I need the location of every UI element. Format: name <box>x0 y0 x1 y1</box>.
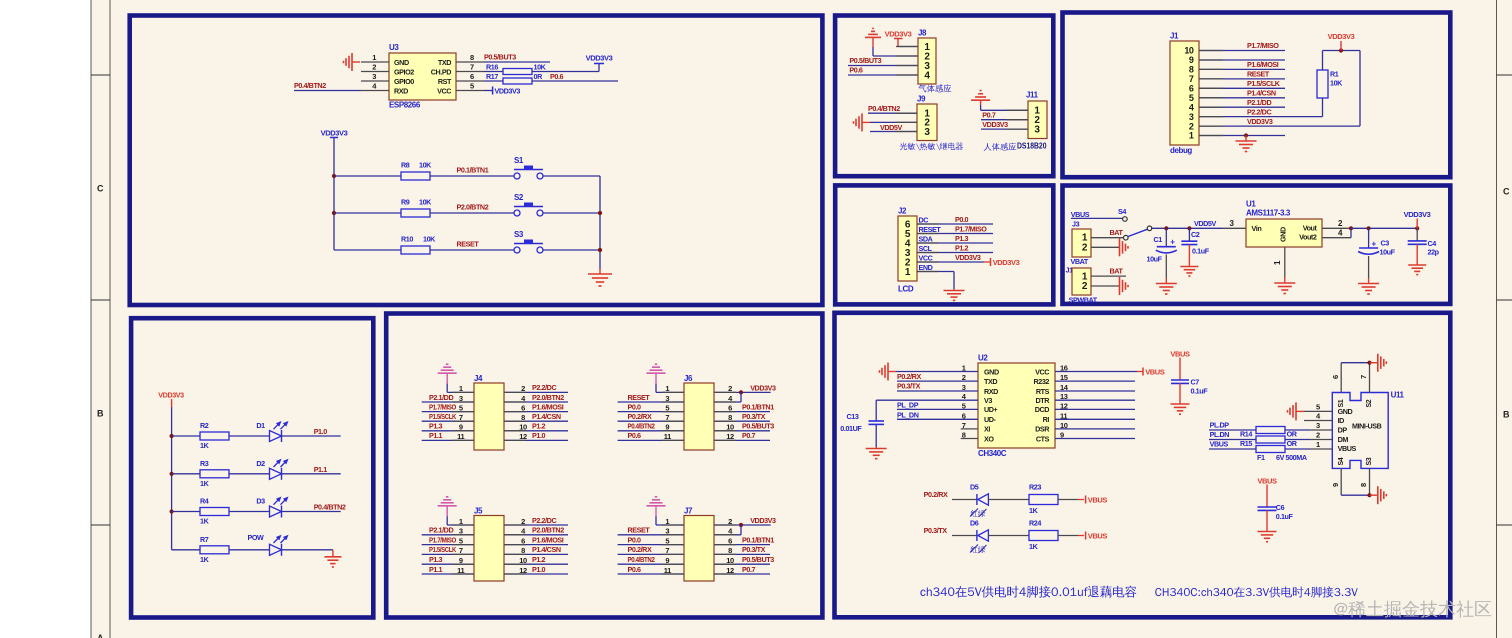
junction node row1 <box>332 174 336 178</box>
J6 right pin stub <box>714 391 736 393</box>
svg-text:R232: R232 <box>1033 377 1049 386</box>
svg-text:3: 3 <box>1230 219 1235 228</box>
svg-text:LCD: LCD <box>898 285 914 294</box>
J5 left pin stub <box>452 524 474 526</box>
wire J7 pin2 to VDD3V3 <box>714 524 771 526</box>
svg-text:P0.2/RX: P0.2/RX <box>897 372 921 381</box>
wire shell top <box>1341 362 1369 364</box>
svg-text:R23: R23 <box>1029 482 1041 491</box>
wire F1 to USB VBUS <box>1285 448 1310 450</box>
svg-text:P0.5/BUT3: P0.5/BUT3 <box>484 53 516 62</box>
svg-text:S1: S1 <box>514 156 524 165</box>
svg-text:PL_DP: PL_DP <box>897 401 919 410</box>
ground above J7 pin1 (earth) <box>655 505 657 507</box>
svg-text:C: C <box>97 184 104 194</box>
D6 color mark (struck text) <box>971 546 986 553</box>
capacitor C1 (polarized) <box>1165 228 1167 246</box>
junction shell top <box>1367 361 1371 365</box>
svg-text:7: 7 <box>1359 375 1368 379</box>
svg-text:0.1uF: 0.1uF <box>1276 512 1294 521</box>
svg-text:P2.2/DC: P2.2/DC <box>1247 107 1271 116</box>
svg-text:VCC: VCC <box>437 86 451 95</box>
connector J3 <box>1072 229 1091 257</box>
J1 pin stubs <box>1199 50 1223 52</box>
wire ground to J11 pin1 <box>980 105 982 110</box>
svg-text:BAT: BAT <box>1110 267 1124 276</box>
ground below C13 <box>875 447 877 449</box>
wire LED D1 out <box>282 435 341 437</box>
svg-text:P0.2/RX: P0.2/RX <box>924 490 948 499</box>
svg-text:P0.5/BUT3: P0.5/BUT3 <box>849 56 881 65</box>
svg-text:DTR: DTR <box>1035 396 1050 405</box>
wire J4 pin2 <box>504 391 568 393</box>
wire J4 pin7 <box>422 420 474 422</box>
resistor R2 <box>200 432 229 440</box>
svg-text:R2: R2 <box>200 421 209 430</box>
svg-text:P1.0: P1.0 <box>314 427 328 436</box>
J4 left pin stub <box>452 430 474 432</box>
svg-text:9: 9 <box>1331 483 1340 487</box>
J5 right pin stub <box>504 524 526 526</box>
svg-text:+: + <box>1372 239 1377 248</box>
svg-text:0R: 0R <box>534 72 544 81</box>
wire C13 to ground <box>875 424 877 447</box>
wire J7 pin8 <box>714 553 770 555</box>
svg-text:R3: R3 <box>200 459 209 468</box>
J6 left pin stub <box>662 401 684 403</box>
svg-text:P1.2: P1.2 <box>532 422 546 431</box>
wire ground to J6 pin1 <box>655 384 657 393</box>
wire D5 to R23 <box>989 499 1030 501</box>
svg-text:DP: DP <box>1338 426 1348 435</box>
wire R10 to switch S3 <box>430 249 514 251</box>
wire J5 pin5 <box>422 544 474 546</box>
wire U2 pin11 <box>1055 418 1135 420</box>
junction U1 output <box>1349 226 1353 230</box>
resistor R24 <box>1029 531 1058 541</box>
wire V3 down to C13 <box>875 400 877 420</box>
svg-text:PL.DN: PL.DN <box>1210 430 1230 439</box>
svg-text:S2: S2 <box>1366 399 1373 407</box>
svg-text:GND: GND <box>1279 227 1288 242</box>
wire LED trunk <box>171 407 173 550</box>
svg-text:F1: F1 <box>1257 453 1265 462</box>
svg-text:U1: U1 <box>1246 200 1256 209</box>
wire J7 pin5 <box>618 544 684 546</box>
wire P0.6 J8 pin4 <box>848 74 918 76</box>
svg-text:J2: J2 <box>898 207 907 216</box>
svg-text:P2.1/DD: P2.1/DD <box>429 393 453 402</box>
svg-text:VDD3V3: VDD3V3 <box>1404 210 1431 219</box>
wire J4 pin4 <box>504 401 568 403</box>
svg-text:P0.5/BUT3: P0.5/BUT3 <box>742 555 774 564</box>
wire J1 pin2 to VDD3V3 rail <box>1199 125 1360 127</box>
svg-text:C3: C3 <box>1381 238 1390 247</box>
wire J5 pin7 <box>422 553 474 555</box>
wire LED D3 out <box>282 511 341 513</box>
ground above J4 pin1 (earth) <box>446 372 448 374</box>
svg-text:P0.6: P0.6 <box>550 72 564 81</box>
svg-text:SDA: SDA <box>919 234 933 243</box>
connector U11 MINI-USB body <box>1332 393 1388 469</box>
capacitor C6 <box>1258 506 1277 508</box>
wire S3 to right trunk <box>543 249 600 251</box>
wire J1 pin4 <box>1199 106 1285 108</box>
wire right trunk <box>599 176 601 269</box>
svg-text:VDD3V3: VDD3V3 <box>955 253 981 262</box>
wire 5V rail S4 to U1 <box>1151 227 1223 229</box>
wire P0.7 J11 pin2 <box>981 119 1028 121</box>
power port VDD3V3 at U3 pin5 <box>484 90 493 92</box>
ground below C4 <box>1416 264 1418 265</box>
svg-text:DSR: DSR <box>1035 425 1050 434</box>
J6 left pin stub <box>662 391 684 393</box>
svg-text:D2: D2 <box>256 459 265 468</box>
J6 left pin stub <box>662 420 684 422</box>
svg-text:1: 1 <box>1189 131 1194 141</box>
svg-text:R9: R9 <box>401 198 410 207</box>
svg-text:MINI-USB: MINI-USB <box>1352 422 1382 431</box>
wire J6 pin12 <box>714 439 770 441</box>
svg-text:VBUS: VBUS <box>1170 350 1190 359</box>
wire pin4 up to pin2 rail <box>1350 228 1352 237</box>
wire J4 pin11 <box>422 439 474 441</box>
wire ground to J7 pin1 <box>655 516 657 525</box>
svg-text:VDD3V3: VDD3V3 <box>321 129 348 138</box>
svg-text:P1.0: P1.0 <box>532 565 546 574</box>
svg-text:P0.4/BTN2: P0.4/BTN2 <box>628 422 655 431</box>
resistor R3 <box>200 470 229 478</box>
svg-text:ESP8266: ESP8266 <box>389 101 421 110</box>
wire J2 SDA <box>917 242 993 244</box>
svg-text:END: END <box>919 263 933 272</box>
svg-text:VDD3V3: VDD3V3 <box>586 54 613 63</box>
wire U2 pin12 <box>1055 408 1135 410</box>
wire ground to J8 pin2 <box>872 47 874 56</box>
svg-text:TXD: TXD <box>438 58 451 67</box>
svg-text:ID: ID <box>1338 416 1345 425</box>
svg-text:P1.0: P1.0 <box>532 431 546 440</box>
svg-text:P0.4/BTN2: P0.4/BTN2 <box>628 555 655 564</box>
J7 right pin stub <box>714 544 736 546</box>
ground at J9 pin2 (signal ground) <box>862 121 870 123</box>
wire J5 pin11 <box>422 573 474 575</box>
wire shell bottom <box>1341 494 1369 496</box>
svg-text:P2.0/BTN2: P2.0/BTN2 <box>532 526 564 535</box>
schematic block frame: expansion headers <box>386 314 822 618</box>
svg-text:B: B <box>97 409 104 419</box>
svg-text:VDD3V3: VDD3V3 <box>885 29 912 38</box>
J7 right pin stub <box>714 553 736 555</box>
schematic block frame: ESP8266 module and buttons <box>130 16 823 306</box>
J5 right pin stub <box>504 534 526 536</box>
U1 pin3 stub <box>1223 227 1246 229</box>
svg-text:P2.2/DC: P2.2/DC <box>532 383 556 392</box>
J9 pin stubs <box>895 112 917 114</box>
junction LED row R3 <box>170 472 174 476</box>
wire J4 pin12 <box>504 439 568 441</box>
svg-text:P2.2/DC: P2.2/DC <box>532 516 556 525</box>
wire J5 pin4 <box>504 534 568 536</box>
svg-text:A: A <box>97 633 104 638</box>
svg-text:P0.6: P0.6 <box>628 431 642 440</box>
svg-text:1: 1 <box>372 53 376 62</box>
J7 right pin stub <box>714 534 736 536</box>
svg-text:Vout2: Vout2 <box>1299 233 1317 242</box>
svg-text:AMS1117-3.3: AMS1117-3.3 <box>1246 208 1291 217</box>
wire R14 to USB DP <box>1285 429 1310 431</box>
J4 left pin stub <box>452 439 474 441</box>
wire J5 pin10 <box>504 563 568 565</box>
schematic block frame: sensor headers <box>835 16 1053 177</box>
J5 right pin stub <box>504 544 526 546</box>
svg-text:R17: R17 <box>486 72 498 81</box>
J5 right pin stub <box>504 573 526 575</box>
J7 left pin stub <box>662 553 684 555</box>
resistor R14 <box>1256 427 1285 434</box>
wire J7 pin6 <box>714 544 770 546</box>
wire J2 END to ground <box>917 271 954 273</box>
wire P0.2/RX to D5 <box>952 499 977 501</box>
svg-text:P0.1/BTN1: P0.1/BTN1 <box>457 165 489 174</box>
svg-text:DCD: DCD <box>1035 405 1050 414</box>
svg-text:DS18B20: DS18B20 <box>1017 142 1047 151</box>
wire J6 pin4 <box>714 401 741 403</box>
svg-text:P0.2/RX: P0.2/RX <box>628 412 652 421</box>
svg-text:4: 4 <box>1338 229 1343 238</box>
wire R3 to LED <box>229 473 270 475</box>
capacitor C3 (polarized) <box>1368 228 1370 248</box>
svg-text:GND: GND <box>1338 407 1353 416</box>
svg-text:GND: GND <box>984 367 999 376</box>
ground at U3 pin1 (signal ground) <box>352 61 360 63</box>
ground below C7 <box>1179 403 1181 405</box>
svg-text:C6: C6 <box>1276 503 1285 512</box>
svg-text:RESET: RESET <box>628 526 651 535</box>
J8 pin stubs <box>896 46 918 48</box>
ground at U2 pin1 <box>888 371 896 373</box>
wire J6 pin8 <box>714 420 770 422</box>
svg-text:R1: R1 <box>1330 70 1339 79</box>
svg-text:1K: 1K <box>1029 542 1039 551</box>
fuse F1 <box>1256 446 1285 453</box>
label human sensor 人体感应 <box>984 143 1017 151</box>
power port VBUS at U2 VCC <box>1142 368 1144 376</box>
wire ground to USB pin5 <box>1304 410 1332 412</box>
svg-text:7: 7 <box>470 63 474 72</box>
U2 pin7 stub <box>961 428 978 430</box>
ground below C1 <box>1165 278 1167 284</box>
wire U2 pin4 V3 <box>876 399 978 401</box>
svg-text:6V 500MA: 6V 500MA <box>1276 453 1307 462</box>
resistor R4 <box>200 508 229 516</box>
svg-text:VDD5V: VDD5V <box>880 123 902 132</box>
wire J5 pin2 <box>504 524 568 526</box>
wire pin7 to R16 <box>484 71 503 73</box>
connector J4 <box>474 383 504 450</box>
wire J7 pin9 <box>618 563 684 565</box>
wire C2 to ground <box>1188 245 1190 266</box>
capacitor C13 <box>869 420 885 422</box>
wire J7 pin4 <box>714 534 741 536</box>
J4 left pin stub <box>452 420 474 422</box>
U3 pin 1 stub <box>361 61 389 63</box>
ground at USB GND pin5 <box>1296 410 1304 412</box>
U3 pin 3 stub <box>361 80 389 82</box>
svg-text:S4: S4 <box>1118 207 1126 216</box>
J4 right pin stub <box>504 391 526 393</box>
svg-text:2: 2 <box>1316 431 1320 440</box>
wire VBUS to C7 <box>1179 358 1181 380</box>
wire J4 pin5 <box>422 411 474 413</box>
wire pin6 to R17 <box>484 80 503 82</box>
J5 left pin stub <box>452 534 474 536</box>
resistor R17 <box>503 78 532 84</box>
svg-text:1: 1 <box>905 267 911 278</box>
svg-text:3: 3 <box>372 72 376 81</box>
svg-text:3: 3 <box>1189 112 1194 122</box>
wire U2 pin2 <box>897 380 978 382</box>
J5 left pin stub <box>452 563 474 565</box>
junction C3 <box>1367 226 1371 230</box>
svg-text:XO: XO <box>984 434 994 443</box>
sheet border zone ticks <box>91 74 110 76</box>
svg-text:P1.1: P1.1 <box>314 465 328 474</box>
svg-text:VBUS: VBUS <box>1088 531 1108 540</box>
svg-text:D5: D5 <box>970 482 979 491</box>
svg-text:P1.5/SCLK: P1.5/SCLK <box>429 412 457 421</box>
wire J1 pin8 <box>1199 68 1285 70</box>
J4 right pin stub <box>504 420 526 422</box>
wire U2 pin5 <box>897 408 978 410</box>
J7 right pin stub <box>714 563 736 565</box>
wire VBUS to C6 <box>1266 485 1268 507</box>
U11 pin8 shell stub <box>1369 468 1371 495</box>
junction shell bottom <box>1367 493 1371 497</box>
wire VDD5V J9 pin3 <box>870 131 917 133</box>
wire J3 pin2 <box>1091 246 1120 248</box>
svg-text:TXD: TXD <box>984 377 997 386</box>
junction VDD3V3 J6 <box>739 390 743 394</box>
wire J4 pin10 <box>504 430 568 432</box>
svg-text:C1: C1 <box>1154 235 1163 244</box>
wire R7 to LED <box>229 549 270 551</box>
wire trunk to R3 <box>172 473 200 475</box>
svg-text:S3: S3 <box>514 230 524 239</box>
wire VDD3V3 top rail <box>1323 50 1361 52</box>
D5 color mark (struck text) <box>971 510 986 517</box>
wire S2 to right trunk <box>543 212 600 214</box>
wire PL.DP to R14 <box>1209 429 1256 431</box>
power port VBUS at R24 <box>1085 532 1087 540</box>
wire ground to J9 pin2 <box>870 121 917 123</box>
svg-text:POW: POW <box>248 533 265 542</box>
connector J5 <box>474 516 504 582</box>
U3 pin 4 stub <box>361 90 389 92</box>
svg-text:J9: J9 <box>917 95 926 104</box>
J4 right pin stub <box>504 411 526 413</box>
svg-text:J11: J11 <box>1026 91 1039 100</box>
ground at J1 pin1 <box>1245 136 1247 142</box>
svg-text:D3: D3 <box>256 497 265 506</box>
svg-text:P1.5/SCLK: P1.5/SCLK <box>429 545 457 554</box>
resistor R9 <box>401 209 430 217</box>
svg-text:UD-: UD- <box>984 415 997 424</box>
svg-text:1: 1 <box>1316 440 1320 449</box>
J6 right pin stub <box>714 430 736 432</box>
wire 3.3V rail <box>1351 227 1417 229</box>
svg-text:P1.4/CSN: P1.4/CSN <box>532 545 561 554</box>
wire trunk to R8 <box>334 175 401 177</box>
wire C1 to ground <box>1165 255 1167 279</box>
svg-text:RESET: RESET <box>457 239 480 248</box>
junction VDD3V3 rail <box>1339 48 1343 52</box>
svg-text:22p: 22p <box>1428 248 1440 257</box>
svg-text:PL.DP: PL.DP <box>1210 420 1230 429</box>
connector J11 <box>1028 101 1047 139</box>
svg-text:VBUS: VBUS <box>1210 440 1229 449</box>
wire J1 pin3 to R1 bottom <box>1199 116 1323 118</box>
svg-text:P1.4/CSN: P1.4/CSN <box>1247 89 1276 98</box>
ground at J11 pin1 (earth up) <box>980 99 982 101</box>
svg-text:3: 3 <box>1034 124 1040 135</box>
svg-text:P2.1/DD: P2.1/DD <box>1247 98 1271 107</box>
svg-text:S3: S3 <box>1366 457 1373 465</box>
J6 left pin stub <box>662 439 684 441</box>
wire ground to J5 pin1 <box>446 516 448 525</box>
svg-text:DC: DC <box>919 215 929 224</box>
wire R1 top <box>1322 51 1324 71</box>
svg-text:VBUS: VBUS <box>1145 367 1165 376</box>
svg-text:2: 2 <box>1082 242 1088 253</box>
wire J12 pin1 <box>1091 275 1126 277</box>
svg-text:P1.7/MISO: P1.7/MISO <box>955 225 987 234</box>
svg-text:VDD3V3: VDD3V3 <box>993 258 1020 267</box>
svg-text:1K: 1K <box>200 479 210 488</box>
ground bottom of button chain <box>599 269 601 274</box>
wire J7 pin11 <box>618 573 684 575</box>
svg-text:VDD3V3: VDD3V3 <box>495 86 521 95</box>
switch S4 blade contact <box>1124 235 1129 240</box>
svg-text:5: 5 <box>1316 402 1320 411</box>
J6 left pin stub <box>662 411 684 413</box>
switch S1 <box>514 173 520 179</box>
J7 left pin stub <box>662 534 684 536</box>
svg-text:8: 8 <box>470 53 474 62</box>
U3 pin 5 stub <box>456 90 484 92</box>
wire J6 pin6 <box>714 411 770 413</box>
wire LED POW to ground <box>282 549 333 551</box>
wire S1 to right trunk <box>543 175 600 177</box>
svg-text:VDD5V: VDD5V <box>1194 219 1216 228</box>
svg-text:J4: J4 <box>474 374 483 383</box>
schematic block frame: LCD header <box>835 185 1053 304</box>
J6 right pin stub <box>714 401 736 403</box>
connector J7 <box>684 516 714 582</box>
svg-text:U11: U11 <box>1391 391 1405 400</box>
svg-text:P0.5/BUT3: P0.5/BUT3 <box>742 422 774 431</box>
junction LED row R4 <box>170 509 174 513</box>
note CH340C 3.3V (Chinese) <box>1155 586 1358 597</box>
wire J1 pin10 <box>1199 50 1285 52</box>
svg-text:UD+: UD+ <box>984 405 998 414</box>
svg-text:XI: XI <box>984 425 990 434</box>
wire R9 to switch S2 <box>430 212 514 214</box>
resistor R8 <box>401 172 430 180</box>
wire R15 to USB DM <box>1285 439 1310 441</box>
watermark 稀土掘金技术社区 <box>1334 600 1491 617</box>
svg-text:J3: J3 <box>1072 220 1080 229</box>
